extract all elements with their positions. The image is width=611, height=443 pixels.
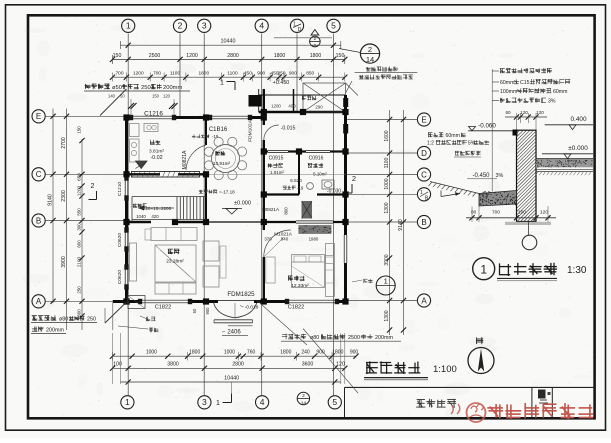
axis circle C left [32, 168, 45, 181]
svg-text:14: 14 [366, 55, 374, 64]
svg-text:0.400: 0.400 [571, 116, 587, 123]
north label 北 [477, 338, 483, 344]
detail grade line with hatch ticks [429, 182, 480, 197]
svg-text:10440: 10440 [224, 375, 239, 381]
svg-text:14: 14 [301, 401, 307, 407]
axis line left [45, 115, 125, 117]
living tv cabinet [130, 243, 137, 281]
svg-text:2500: 2500 [348, 335, 360, 341]
svg-text:-0.02: -0.02 [150, 155, 162, 161]
svg-text:60mm: 60mm [446, 133, 460, 139]
axis C thin line through plan [206, 173, 346, 175]
vertical axis line 5 [333, 34, 335, 396]
svg-text:1100: 1100 [384, 157, 390, 168]
bedroom closet speckled lintel [298, 225, 331, 234]
exterior wall left (axis 1) [125, 116, 128, 303]
svg-text:1: 1 [420, 190, 423, 196]
detail level -0.060 [468, 123, 516, 131]
porch canopy diagonals [303, 83, 358, 112]
svg-text:1:30: 1:30 [567, 265, 587, 276]
svg-text:C1822: C1822 [288, 304, 304, 310]
axis circle A right [417, 294, 430, 307]
note air-conditioning hole top left [84, 84, 190, 91]
left dim numbers [48, 126, 82, 317]
svg-text:200mm: 200mm [375, 335, 393, 341]
svg-text:B: B [421, 218, 426, 227]
living side chairs right [203, 241, 226, 287]
svg-text:100mm: 100mm [500, 89, 517, 95]
svg-text:220×10=2200: 220×10=2200 [143, 206, 172, 211]
svg-text:3: 3 [202, 21, 207, 31]
svg-text:700: 700 [153, 70, 161, 76]
svg-text:1: 1 [125, 397, 130, 407]
entry porch steps [214, 320, 253, 326]
range counter hatch (axis C wall kitchen) [132, 172, 200, 178]
svg-text:3%: 3% [496, 173, 504, 179]
axis line right [346, 152, 417, 154]
svg-text:12.33m²: 12.33m² [291, 283, 309, 289]
svg-text:850: 850 [306, 70, 314, 76]
svg-text:760: 760 [247, 349, 256, 355]
svg-text:3900: 3900 [384, 254, 390, 265]
axis circle 4 top [255, 19, 268, 32]
svg-text:5.10m²: 5.10m² [313, 172, 327, 177]
svg-text:B: B [36, 216, 41, 225]
plan corner diagonal top-left [100, 89, 127, 116]
entry dim 2406 [222, 329, 248, 336]
svg-text:2500: 2500 [149, 53, 161, 59]
kitchen hood symbol [136, 161, 148, 169]
axis circle B left [32, 214, 45, 227]
detail apron slope speckled [479, 191, 517, 207]
axis line right [346, 174, 417, 176]
section mark 2 right [345, 174, 357, 193]
axis circle 5 top [327, 19, 340, 32]
bedroom nightstand [326, 256, 334, 264]
svg-text:1040: 1040 [136, 214, 146, 219]
store label 储藏室 [268, 163, 283, 167]
svg-text:1200: 1200 [133, 70, 144, 76]
detail annotation row 1 [492, 68, 552, 73]
window jamb blocks [124, 115, 339, 304]
top dimension row segments [110, 70, 348, 81]
title band caption 一层平面 [417, 399, 456, 407]
svg-text:5: 5 [331, 21, 336, 31]
svg-text:400: 400 [288, 104, 296, 109]
svg-text:290: 290 [315, 105, 323, 110]
note air-conditioning hole bottom right [281, 334, 401, 341]
reference circle 2/14 top right [360, 44, 379, 64]
svg-text:FDM102A: FDM102A [248, 119, 254, 141]
svg-text:50: 50 [192, 308, 197, 313]
svg-text:5: 5 [332, 397, 337, 407]
svg-text:C1822: C1822 [155, 304, 171, 310]
entry level -0.018 [240, 304, 259, 310]
living bottom seats [155, 283, 196, 294]
tank label 水池 [118, 326, 158, 332]
kitchen counter top [130, 124, 159, 163]
svg-text:10440: 10440 [221, 39, 236, 45]
svg-text:1200: 1200 [271, 104, 281, 109]
svg-text:2700: 2700 [61, 137, 67, 149]
svg-text:E: E [421, 115, 426, 124]
svg-text:250: 250 [87, 317, 96, 323]
bottom dimension row segments [110, 349, 359, 360]
svg-text:2: 2 [368, 45, 372, 54]
entry leader diagonal [257, 301, 307, 346]
living label 客厅 [168, 249, 179, 254]
svg-text:4: 4 [260, 397, 265, 407]
vertical axis line 2 [179, 34, 181, 119]
svg-text:1800: 1800 [189, 349, 200, 355]
axis line left [45, 300, 125, 302]
svg-text:1: 1 [384, 277, 388, 286]
detail level 0.400 [545, 116, 593, 130]
svg-text:60: 60 [505, 110, 511, 115]
watermark logo circle [451, 403, 486, 422]
axis line left [45, 173, 125, 175]
svg-text:900: 900 [350, 349, 359, 355]
svg-text:1200: 1200 [76, 185, 81, 196]
porch label 开水井 [302, 96, 316, 100]
detail annotation vertical leader [491, 69, 493, 192]
svg-text:C1B16: C1B16 [209, 127, 228, 133]
entry door double swing arcs [214, 303, 257, 319]
dining note 消毒柜-19 [192, 134, 219, 139]
exterior wall right (axis 5) [343, 95, 348, 303]
svg-text:200mm: 200mm [163, 85, 183, 91]
dining table round [204, 137, 246, 179]
bedroom cabinet left [266, 257, 275, 283]
detail annotation row 3 [492, 88, 567, 95]
porch note row1 [366, 67, 398, 71]
interior wall kitchen east (axis 3) [205, 118, 207, 223]
door M0821A arc [186, 145, 206, 170]
svg-text:=-17.18: =-17.18 [219, 190, 235, 195]
svg-text:C0620: C0620 [117, 233, 123, 247]
axis circle 1/B right [417, 188, 430, 202]
svg-text:D: D [421, 149, 427, 158]
svg-text:300: 300 [76, 223, 81, 231]
svg-text:150: 150 [113, 53, 122, 59]
svg-text:3%: 3% [548, 99, 556, 105]
reference leader from axis 5 [339, 49, 361, 53]
svg-text:140: 140 [108, 94, 116, 99]
dims 370 940 1980 [264, 237, 319, 242]
bottom total dimension 10440 [121, 375, 341, 395]
detail left note 散水厚60mm厚 [428, 133, 465, 139]
svg-text:+0.450: +0.450 [273, 80, 290, 86]
svg-text:±0.000: ±0.000 [568, 145, 588, 152]
stair label 楼梯间 [133, 204, 146, 208]
vent shaft hatched [302, 201, 313, 219]
bottom extension lines [113, 333, 345, 384]
small dims under note [108, 94, 171, 99]
axis circle E left [32, 110, 45, 123]
svg-text:3800: 3800 [167, 362, 179, 368]
svg-text:450: 450 [244, 70, 252, 76]
left dim column lines [50, 109, 84, 331]
svg-text:550: 550 [76, 208, 81, 216]
svg-text:E: E [36, 112, 41, 121]
axis circle 3 top [198, 19, 211, 32]
axis circle 4 bottom [256, 396, 269, 409]
section mark 1 top [220, 80, 235, 91]
axis circle 3 bottom [198, 396, 211, 409]
svg-text:1800: 1800 [310, 53, 322, 59]
stair room frame [132, 197, 206, 223]
column blobs [123, 109, 348, 305]
axis circle 1 top [122, 19, 135, 32]
svg-text:150: 150 [152, 94, 160, 99]
svg-text:700: 700 [115, 70, 123, 76]
svg-text:3.81m²: 3.81m² [149, 149, 164, 155]
svg-text:-0.015: -0.015 [281, 126, 296, 132]
section mark 1 bottom [216, 394, 231, 408]
svg-text:600: 600 [76, 309, 81, 317]
axis circle 1 bottom [121, 396, 134, 409]
svg-text:⌐: ⌐ [222, 329, 225, 335]
svg-text:M0821A: M0821A [182, 150, 188, 169]
svg-text:1000: 1000 [146, 349, 157, 355]
svg-text:420: 420 [151, 214, 159, 219]
svg-text:150: 150 [76, 126, 81, 134]
detail bottom dims 80 700 100 120 [466, 206, 556, 222]
svg-text:C0915: C0915 [269, 156, 284, 162]
main caption 一层平面 [367, 362, 420, 373]
svg-text:1000: 1000 [384, 178, 390, 189]
svg-text:370: 370 [264, 237, 272, 242]
bedroom bed [292, 255, 325, 288]
title band left divider [344, 387, 346, 417]
porch small dims [271, 104, 323, 110]
detail slope arrow [441, 191, 460, 197]
right dim column lines [387, 110, 406, 335]
svg-text:700: 700 [492, 210, 500, 216]
svg-text:C0916: C0916 [309, 156, 324, 162]
svg-text:900: 900 [205, 307, 210, 315]
detail caption circle 1 [473, 258, 495, 280]
svg-text:120: 120 [536, 110, 544, 115]
note air-conditioning hole bottom left line1 [31, 316, 97, 323]
right dim numbers [384, 130, 404, 321]
section mark 2 left [89, 183, 97, 200]
svg-text:6.520: 6.520 [290, 178, 302, 183]
north arrow circle [468, 348, 494, 374]
svg-text:1: 1 [480, 263, 487, 277]
detail level +-0.000 [542, 145, 593, 159]
svg-text:2100: 2100 [76, 256, 81, 267]
title block divider 1 [531, 387, 533, 417]
vertical axis line 3 [203, 34, 205, 396]
svg-text:1:2: 1:2 [427, 141, 434, 147]
svg-text:2: 2 [352, 174, 356, 183]
svg-text:120: 120 [163, 94, 171, 99]
svg-text:3: 3 [202, 397, 207, 407]
porch note leader down [346, 81, 352, 93]
vertical axis line 4 [261, 34, 263, 396]
detail wall top step [513, 130, 518, 136]
svg-text:1000: 1000 [224, 349, 235, 355]
top total dimension 10440 [121, 39, 341, 49]
bath label 卫生间 [308, 163, 323, 167]
title band top line [345, 386, 595, 388]
interior wall axis 1/B [264, 193, 346, 195]
north arrow needle [478, 349, 484, 372]
hall note 楼面标高-17.18 [199, 190, 235, 195]
porch top wall [259, 89, 346, 112]
interior wall axis D [264, 150, 346, 152]
svg-text:2: 2 [302, 393, 305, 399]
detail caption underline [497, 278, 557, 280]
svg-text:ø50: ø50 [112, 85, 122, 91]
svg-text:1300: 1300 [384, 310, 390, 321]
detail floor slab speckled [535, 159, 593, 175]
exterior wall bottom (axis A) [113, 300, 346, 303]
kitchen label 厨房 [150, 140, 160, 144]
svg-text:1800: 1800 [198, 70, 209, 76]
axis circle 1/D top [290, 19, 303, 33]
detail left note 1:2 [427, 140, 489, 146]
svg-text:600: 600 [76, 240, 81, 248]
porch note underline [355, 72, 418, 74]
interior wall store/bath divider [298, 152, 300, 195]
svg-text:1: 1 [216, 400, 220, 407]
svg-text:C15: C15 [520, 80, 530, 86]
door FDM102A arc [264, 125, 279, 140]
svg-text:D: D [298, 27, 302, 33]
hall level triangle [222, 209, 242, 215]
svg-text:1100: 1100 [227, 70, 238, 76]
living rug [155, 245, 196, 282]
svg-text:120: 120 [520, 110, 528, 115]
axis circle C right [417, 168, 430, 181]
reference circle 1 right side [376, 276, 395, 295]
axis circle E right [417, 113, 430, 126]
svg-text:13.91m²: 13.91m² [213, 161, 231, 166]
svg-text:250: 250 [76, 286, 81, 294]
svg-text:-0.450: -0.450 [472, 173, 490, 179]
svg-text:3900: 3900 [61, 256, 67, 268]
main caption underline double [364, 378, 428, 380]
svg-text:60mm: 60mm [553, 89, 567, 95]
axis circle A left [32, 295, 45, 308]
svg-text:C0620: C0620 [117, 270, 123, 284]
tank label 板水池 [140, 316, 155, 321]
svg-text:9140: 9140 [398, 219, 404, 231]
svg-text:1: 1 [220, 80, 224, 87]
detail annotation row 2 [492, 79, 570, 86]
bedroom label 老人房 [288, 276, 304, 281]
bottom dimension row axis spans [110, 362, 348, 371]
interior wall kitchen south (axis C) [127, 173, 207, 175]
column blob porch [249, 95, 262, 107]
vent note -19 bath [283, 186, 304, 191]
exterior wall top (axis E) [126, 99, 264, 119]
water tank square [128, 296, 145, 309]
svg-text:1200: 1200 [186, 53, 198, 59]
svg-text:650: 650 [76, 173, 81, 181]
svg-text:±0.000: ±0.000 [234, 201, 251, 207]
svg-text:1600: 1600 [384, 130, 390, 141]
leader diagonal to axis 2/14 [303, 329, 358, 394]
link line 1/D to 5 [274, 37, 332, 39]
axis line right [346, 300, 417, 302]
detail annotation row 4 [492, 98, 556, 105]
detail wall bottom shadow [505, 222, 551, 225]
vertical axis line 1 [127, 34, 129, 396]
axis circle 2 top [173, 19, 186, 32]
title block stamp marks [538, 390, 551, 404]
axis circle 2/14 bottom [297, 392, 309, 406]
stair dims 1040 420 [136, 214, 159, 219]
detail wall bottom circle [522, 222, 537, 250]
living sofa top row [145, 228, 197, 241]
bath fixtures [307, 180, 334, 189]
svg-text:900: 900 [257, 70, 265, 76]
svg-text:2800: 2800 [227, 53, 239, 59]
porch note row2 [359, 75, 413, 79]
top dimension row axis spans [110, 53, 348, 64]
detail top dims 60 120 120 [505, 110, 547, 130]
title block divider 2 [551, 387, 553, 417]
axis circle D right [417, 146, 430, 159]
detail left note small underlined [454, 151, 481, 157]
detail wall section hatched [517, 130, 537, 221]
svg-text:1300: 1300 [384, 202, 390, 213]
svg-text:-0.060: -0.060 [478, 123, 496, 130]
detail level -0.450 3% [467, 173, 503, 179]
svg-text:120: 120 [540, 210, 548, 216]
porch wall stub [293, 89, 295, 112]
svg-text:250: 250 [141, 85, 151, 91]
right side note 进水 [352, 279, 372, 283]
detail marker circle 20 top [310, 30, 321, 48]
axis circle B right [417, 215, 430, 228]
bedroom wardrobe right [326, 244, 335, 297]
axis circle 5 bottom [328, 396, 341, 409]
note air-conditioning hole bottom left line2 [31, 327, 66, 334]
svg-text:940: 940 [281, 237, 289, 242]
svg-text:1: 1 [293, 22, 296, 28]
svg-text:1:100: 1:100 [433, 364, 457, 375]
splash apron diagonal bottom-left [105, 302, 127, 330]
svg-text:1800: 1800 [332, 349, 343, 355]
dining label 餐厅 [216, 151, 225, 155]
svg-text:C: C [421, 170, 427, 179]
svg-text:ø80: ø80 [59, 317, 68, 323]
axis line right [346, 119, 417, 121]
svg-text:1980: 1980 [309, 237, 319, 242]
svg-text:2: 2 [178, 21, 183, 31]
svg-text:60mm: 60mm [500, 80, 514, 86]
interior wall main vertical (axis 4) [263, 89, 265, 302]
svg-text:200mm: 200mm [46, 328, 64, 334]
svg-text:C1216: C1216 [144, 110, 163, 117]
svg-text:2: 2 [91, 183, 95, 190]
axis line right [346, 221, 417, 223]
axis line left [45, 220, 125, 222]
vertical axis line 1/D [296, 34, 298, 114]
svg-text:A: A [421, 296, 427, 305]
svg-text:1800: 1800 [280, 349, 291, 355]
svg-text:100: 100 [518, 210, 526, 216]
detail caption 散水详图 [500, 263, 557, 275]
svg-text:2300: 2300 [61, 190, 67, 202]
door M1021A arc [264, 230, 291, 257]
door swing line M1021A [264, 237, 284, 257]
svg-text:-19: -19 [297, 186, 304, 191]
